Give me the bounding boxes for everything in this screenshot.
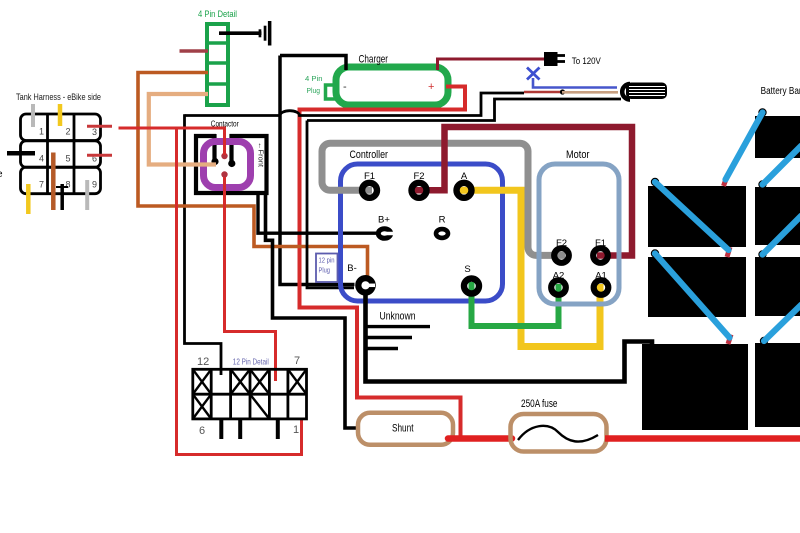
svg-text:-: - (343, 81, 347, 93)
charger box (336, 67, 448, 105)
wire black contactor to B+ (258, 194, 378, 233)
wire stub black pin4 (7, 151, 35, 156)
terminal dot R3 (760, 337, 768, 345)
svg-text:12 pin: 12 pin (319, 258, 335, 265)
svg-text:4 Pin Detail: 4 Pin Detail (198, 9, 237, 20)
wire black charger negative (280, 56, 346, 71)
motor box (539, 164, 619, 304)
svg-text:Charger: Charger (359, 54, 389, 66)
red terminal tip L2 (727, 247, 730, 257)
svg-text:F1: F1 (595, 238, 606, 249)
connector J2 4 pin detail (207, 24, 228, 105)
svg-text:R: R (439, 215, 446, 226)
svg-text:S: S (464, 264, 470, 275)
terminal B+ controller (378, 229, 390, 239)
battery cable L1 to L2 (655, 182, 729, 250)
unknown stub 3 (366, 347, 398, 350)
svg-text:1: 1 (293, 424, 299, 436)
wire blue switch to throttle (533, 78, 617, 88)
X marks 12 pin grid (193, 369, 307, 419)
connector J3 12 pin grid (193, 369, 307, 419)
terminal A1 motor (594, 280, 609, 295)
terminal dot R1 (758, 180, 766, 188)
fuse sine wave (518, 426, 598, 442)
svg-text:6: 6 (199, 425, 205, 437)
terminal A controller (457, 183, 472, 198)
contactor coil pin bottom red dot (221, 171, 227, 177)
red terminal tip L1 (724, 175, 728, 186)
wire black contactor outer left to 12 pin (185, 114, 222, 375)
wire maroon F2 controller to F1 motor (414, 127, 632, 256)
terminal F1 motor (593, 248, 608, 263)
svg-text:5: 5 (65, 154, 70, 164)
wire black lower-left drop to B- (307, 121, 354, 288)
connector J1 tank harness row 2 (21, 141, 101, 168)
wire maroon charger to 120V plug (438, 59, 546, 70)
svg-text:250A fuse: 250A fuse (521, 398, 558, 410)
wire stub brown pin5 (51, 153, 56, 211)
battery R3 (755, 343, 800, 427)
wire tan throttle segment (562, 91, 618, 94)
svg-text:F2: F2 (556, 238, 567, 249)
svg-text:9: 9 (92, 180, 97, 190)
wire stub black pin8 (60, 184, 64, 210)
svg-text:3: 3 (92, 127, 97, 137)
battery cable R0 to L1 (726, 113, 763, 180)
contactor inner black box (196, 136, 267, 193)
svg-text:A: A (461, 171, 468, 182)
svg-text:Battery Bank: Battery Bank (761, 86, 800, 97)
svg-text:Tank Harness - eBike side: Tank Harness - eBike side (16, 92, 101, 103)
wire stub maroon 4-pin pin2 (180, 49, 209, 53)
wire stub red pin3 (87, 125, 112, 128)
battery cable R3 up right (764, 305, 800, 341)
contactor pin 2 (229, 134, 233, 161)
throttle grip body (626, 83, 667, 100)
terminal dot L2 (651, 249, 659, 257)
battery R2 (755, 257, 800, 316)
svg-text:2: 2 (65, 127, 70, 137)
connector J1 tank harness row 1 (21, 114, 101, 141)
wire gray F1 controller to F2 motor (322, 143, 565, 255)
svg-text:Motor: Motor (566, 149, 590, 161)
battery L3 (642, 344, 748, 430)
wire red main horizontal from tank to coil (119, 128, 225, 155)
svg-text:Shunt: Shunt (392, 423, 414, 435)
chassis ground symbol (259, 29, 262, 37)
wire stub red pin6 (87, 154, 112, 157)
battery L1 (648, 186, 746, 247)
terminal F1 controller (362, 183, 377, 198)
svg-text:Controller: Controller (350, 149, 389, 161)
wire yellow A controller to A1 motor (459, 190, 600, 346)
svg-text:F1: F1 (364, 171, 375, 182)
svg-text:12: 12 (197, 356, 209, 368)
svg-text:←Front: ←Front (257, 142, 264, 167)
wire stub yellow pin7 (26, 184, 31, 214)
terminal B- controller (358, 278, 372, 292)
terminal dot R2 (758, 250, 766, 258)
svg-text:To 120V: To 120V (572, 56, 601, 66)
battery L2 (648, 257, 746, 317)
wire black from 4-pin pin1 to chassis ground (219, 31, 262, 35)
svg-text:A1: A1 (595, 271, 607, 282)
contactor purple body (204, 142, 251, 188)
wire red branch down to 12 pin loop (177, 128, 302, 455)
wire stub gray pin1 (31, 104, 35, 127)
connector J1 tank harness row 3 (21, 167, 101, 194)
svg-text:7: 7 (294, 355, 300, 367)
wire black stair contactor to shunt (266, 194, 361, 428)
unknown stub 2 (366, 336, 412, 339)
12 pin plug label box (316, 254, 338, 283)
svg-text:A2: A2 (553, 271, 565, 282)
wire tan from 4-pin to contactor pin1 (149, 94, 216, 165)
wire red coil bottom to 12 pin cell5 (225, 177, 276, 381)
wire black hop from contactor to throttle area (185, 93, 525, 116)
wire stub below 12pin col2 (219, 419, 223, 439)
svg-text:F2: F2 (413, 171, 424, 182)
wire stub below 12pin col3 (238, 419, 242, 439)
terminal F2 controller (412, 183, 427, 198)
red terminal tip L3 (728, 335, 731, 345)
svg-text:4 Pin: 4 Pin (305, 74, 323, 83)
svg-text:4: 4 (39, 154, 44, 164)
svg-text:B-: B- (347, 263, 357, 274)
junction dot throttle wire (560, 89, 565, 94)
wire green S controller to A2 motor (472, 282, 559, 326)
battery cable L2 to L3 (655, 254, 730, 338)
battery R0 (755, 116, 800, 158)
wire stub yellow pin2 (58, 104, 63, 126)
wire black charger negative drop to B- (280, 56, 355, 285)
wire black lower to throttle (307, 99, 621, 121)
wire black B- to battery negative L path (366, 293, 653, 382)
connector J1 column dividers (46, 114, 49, 194)
terminal F2 motor (554, 248, 569, 263)
svg-text:7: 7 (39, 180, 44, 190)
terminal dot R0 (758, 108, 766, 116)
wire red thick fuse to battery (605, 435, 800, 442)
svg-text:1: 1 (39, 127, 44, 137)
AC plug symbol (544, 52, 558, 66)
switch X blue (527, 68, 540, 80)
svg-text:B+: B+ (378, 215, 390, 226)
svg-text:Plug: Plug (307, 86, 321, 95)
battery cable R1 up right (763, 146, 800, 185)
battery cable R2 up right (763, 216, 800, 255)
contactor pin 1 (212, 134, 216, 159)
svg-text:e: e (0, 169, 3, 180)
fuse box (511, 414, 607, 452)
battery R1 (755, 187, 800, 245)
wire stub gray pin9 (85, 180, 89, 210)
terminal R controller (436, 229, 448, 238)
shunt box (358, 413, 453, 445)
svg-text:Unknown: Unknown (380, 311, 416, 323)
contactor coil pin top red dot (221, 153, 227, 159)
wire crimson throttle segment (524, 91, 562, 94)
wire brown from 4-pin pin3 to B- (138, 73, 368, 277)
terminal dot L1 (651, 178, 659, 186)
svg-text:+: + (428, 81, 434, 93)
wire stub below 12pin col5 (276, 419, 280, 439)
unknown stub 1 (366, 325, 430, 328)
wire red thick shunt to fuse (448, 435, 512, 442)
wire red charger positive (300, 87, 466, 438)
controller box (341, 164, 503, 301)
terminal S controller (464, 279, 479, 294)
4 pin plug tab on charger (326, 85, 337, 99)
terminal A2 motor (551, 280, 566, 295)
svg-text:Plug: Plug (319, 268, 331, 275)
throttle grip collar (622, 84, 630, 100)
svg-text:12 Pin Detail: 12 Pin Detail (233, 357, 269, 367)
